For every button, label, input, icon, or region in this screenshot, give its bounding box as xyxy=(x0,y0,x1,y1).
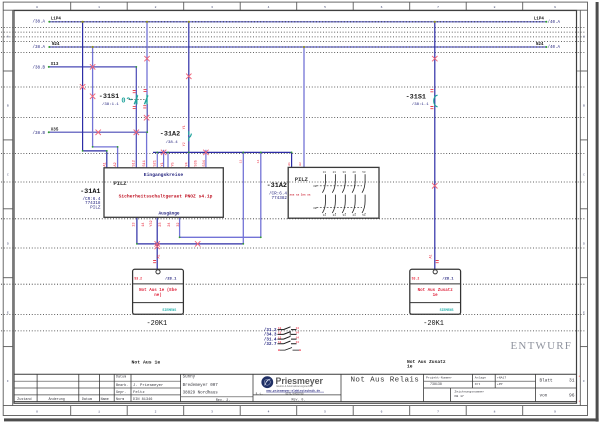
svg-text:Elektro & Automatisierungstech: Elektro & Automatisierungstechnik xyxy=(277,385,314,388)
svg-text:0: 0 xyxy=(36,410,38,413)
svg-text:E: E xyxy=(583,311,585,314)
svg-text:13: 13 xyxy=(323,171,327,174)
svg-text:N24: N24 xyxy=(536,43,544,47)
svg-text:/38:1.1: /38:1.1 xyxy=(412,102,429,107)
svg-text:N24: N24 xyxy=(52,43,60,47)
svg-text:+PP: +PP xyxy=(497,382,503,386)
svg-text:Y32: Y32 xyxy=(150,220,154,226)
svg-text:31: 31 xyxy=(569,378,575,384)
svg-text:Y1: Y1 xyxy=(161,162,165,166)
svg-text:A: A xyxy=(7,36,9,39)
svg-text:8: 8 xyxy=(494,410,496,413)
svg-text:14: 14 xyxy=(296,341,300,344)
svg-text:-20K1: -20K1 xyxy=(423,320,444,328)
svg-text:S3.2: S3.2 xyxy=(412,276,420,280)
svg-text:J. Priesmeyer: J. Priesmeyer xyxy=(133,383,163,388)
svg-text:SIEMENS: SIEMENS xyxy=(162,308,176,312)
svg-text:L1P4: L1P4 xyxy=(534,18,545,22)
svg-text:Rev. 2.: Rev. 2. xyxy=(216,399,231,403)
svg-text:A1: A1 xyxy=(103,162,107,166)
svg-text:5: 5 xyxy=(324,410,326,413)
svg-text:X13: X13 xyxy=(51,63,59,67)
svg-text:Ausgänge: Ausgänge xyxy=(158,211,179,216)
svg-text:23: 23 xyxy=(333,171,337,174)
svg-text:14: 14 xyxy=(296,327,300,330)
svg-text:/31.2: /31.2 xyxy=(264,328,277,333)
svg-text:32: 32 xyxy=(177,222,181,226)
svg-text:A1: A1 xyxy=(158,254,162,258)
svg-text:Not Aus Zusatz: Not Aus Zusatz xyxy=(407,359,446,365)
svg-text:1: 1 xyxy=(98,410,100,413)
svg-text:A: A xyxy=(583,36,585,39)
svg-text:ENTWURF: ENTWURF xyxy=(511,340,573,352)
svg-text:33: 33 xyxy=(343,171,347,174)
svg-text:/32.7: /32.7 xyxy=(264,342,277,347)
svg-text:F: F xyxy=(7,380,9,383)
svg-text:13: 13 xyxy=(132,222,136,226)
svg-text:8: 8 xyxy=(494,6,496,9)
svg-text:Eingangskreise: Eingangskreise xyxy=(144,172,184,178)
svg-text:43: 43 xyxy=(352,171,356,174)
svg-text:Y2: Y2 xyxy=(182,142,186,146)
svg-text:+NA17: +NA17 xyxy=(497,375,506,379)
svg-text:9: 9 xyxy=(554,6,556,9)
svg-text:S21: S21 xyxy=(153,160,157,166)
svg-text:38829 Nordhaus: 38829 Nordhaus xyxy=(183,391,219,396)
svg-text:A2: A2 xyxy=(298,162,302,166)
svg-text:/28.1: /28.1 xyxy=(442,276,454,281)
svg-text:/40.A: /40.A xyxy=(548,45,561,50)
svg-text:Feltz: Feltz xyxy=(133,390,145,395)
svg-text:B: B xyxy=(583,105,585,108)
svg-text:-31S1: -31S1 xyxy=(99,93,119,101)
svg-text:Y4: Y4 xyxy=(185,162,189,166)
svg-text:/31.4: /31.4 xyxy=(264,337,277,342)
svg-text:SIEMENS: SIEMENS xyxy=(440,308,454,312)
svg-text:Not Aus 1e: Not Aus 1e xyxy=(132,360,161,366)
svg-text:/38.B: /38.B xyxy=(33,66,46,71)
svg-text:/38.A: /38.A xyxy=(33,20,46,25)
svg-text:/38.A: /38.A xyxy=(33,45,46,50)
svg-text:34: 34 xyxy=(343,214,347,217)
svg-text:9: 9 xyxy=(554,410,556,413)
svg-text:14: 14 xyxy=(296,336,300,339)
svg-text:774382: 774382 xyxy=(272,196,288,201)
svg-text:14: 14 xyxy=(323,214,327,217)
svg-text:Not Aus Zusatz: Not Aus Zusatz xyxy=(418,289,454,293)
svg-text:D: D xyxy=(583,242,585,245)
svg-text:738138: 738138 xyxy=(430,382,442,386)
svg-text:Norm: Norm xyxy=(116,397,124,402)
svg-text:5: 5 xyxy=(324,6,326,9)
svg-text:-31A2: -31A2 xyxy=(160,130,180,138)
svg-text:14: 14 xyxy=(256,160,260,164)
svg-text:1: 1 xyxy=(98,6,100,9)
svg-text:/38:1.1: /38:1.1 xyxy=(102,102,119,107)
svg-text:X35: X35 xyxy=(51,129,59,133)
svg-text:Y5: Y5 xyxy=(172,162,176,166)
svg-text:S3.2: S3.2 xyxy=(134,276,142,280)
svg-text:PILZ: PILZ xyxy=(295,176,309,183)
svg-text:13: 13 xyxy=(278,336,282,339)
svg-text:von: von xyxy=(540,394,548,399)
svg-text:C: C xyxy=(583,173,585,176)
svg-text:ne): ne) xyxy=(154,293,162,298)
svg-text:3: 3 xyxy=(211,410,213,413)
svg-text:2: 2 xyxy=(155,410,157,413)
svg-text:4: 4 xyxy=(268,410,270,413)
svg-text:44: 44 xyxy=(352,214,356,217)
svg-text:KB: KB xyxy=(314,207,318,210)
svg-text:Bearb.: Bearb. xyxy=(116,383,128,388)
svg-text:xxx xx 3xx xx: xxx xx 3xx xx xyxy=(290,194,311,197)
svg-text:DIN 81346: DIN 81346 xyxy=(133,398,152,402)
svg-text:Zustand: Zustand xyxy=(17,397,31,402)
svg-text:F: F xyxy=(583,380,585,383)
svg-text:S11: S11 xyxy=(143,160,147,166)
svg-text:Not Aus 1e (Ebe: Not Aus 1e (Ebe xyxy=(139,288,177,293)
svg-text:4: 4 xyxy=(268,6,270,9)
svg-text:Name: Name xyxy=(101,398,109,402)
svg-text:/40.A: /40.A xyxy=(548,20,561,25)
svg-text:B: B xyxy=(7,105,9,108)
svg-text:A1: A1 xyxy=(430,254,434,258)
svg-text:Änderung: Änderung xyxy=(49,397,65,402)
svg-text:Ort: Ort xyxy=(475,382,481,386)
svg-text:E: E xyxy=(7,311,9,314)
svg-text:Gepr.: Gepr. xyxy=(116,390,126,395)
svg-text:7: 7 xyxy=(437,6,439,9)
svg-text:6: 6 xyxy=(381,410,383,413)
svg-text:KB 17: KB 17 xyxy=(455,394,464,398)
svg-text:/38.4: /38.4 xyxy=(166,140,179,145)
svg-text:6: 6 xyxy=(381,6,383,9)
svg-text:L1P4: L1P4 xyxy=(51,18,62,22)
svg-text:Rev. 0.: Rev. 0. xyxy=(292,397,306,401)
svg-text:13: 13 xyxy=(239,160,243,164)
svg-text:Sicherheitsschaltgeraet PNOZ s: Sicherheitsschaltgeraet PNOZ s4.1p xyxy=(119,193,213,199)
svg-text:Anlage: Anlage xyxy=(475,375,486,379)
svg-text:13: 13 xyxy=(278,341,282,344)
svg-text:A2: A2 xyxy=(114,162,118,166)
svg-text:D: D xyxy=(7,242,9,245)
svg-text:1e: 1e xyxy=(407,363,413,369)
svg-text:24: 24 xyxy=(333,214,337,217)
svg-text:Datum: Datum xyxy=(82,398,92,402)
svg-text:Sunny: Sunny xyxy=(183,375,196,379)
svg-text:Not Aus Relais: Not Aus Relais xyxy=(351,376,420,384)
svg-text:23: 23 xyxy=(159,222,163,226)
svg-text:7: 7 xyxy=(437,410,439,413)
svg-text:14: 14 xyxy=(142,222,146,226)
svg-text:3: 3 xyxy=(211,6,213,9)
svg-text:Zeichnungsnummer: Zeichnungsnummer xyxy=(455,390,485,394)
svg-text:13: 13 xyxy=(278,332,282,335)
svg-text:13: 13 xyxy=(278,327,282,330)
svg-text:/34.3: /34.3 xyxy=(264,333,277,338)
svg-text:PILZ: PILZ xyxy=(113,180,127,187)
svg-text:0: 0 xyxy=(121,98,125,106)
svg-text:/38.B: /38.B xyxy=(33,131,46,136)
svg-text:Bredemeyer 007: Bredemeyer 007 xyxy=(183,383,219,388)
svg-text:-31S1: -31S1 xyxy=(406,94,426,102)
svg-text:S12: S12 xyxy=(133,160,137,166)
svg-text:KB: KB xyxy=(314,185,318,188)
svg-text:/28.1: /28.1 xyxy=(165,276,177,281)
svg-text:0: 0 xyxy=(36,6,38,9)
svg-text:14: 14 xyxy=(296,332,300,335)
svg-text:2: 2 xyxy=(155,6,157,9)
svg-text:A1: A1 xyxy=(287,162,291,166)
svg-text:PILZ: PILZ xyxy=(90,205,101,210)
svg-text:-31A1: -31A1 xyxy=(80,188,100,196)
svg-text:S34: S34 xyxy=(203,160,207,166)
svg-text:1e: 1e xyxy=(433,294,439,298)
svg-text:Projekt-Nummer: Projekt-Nummer xyxy=(426,375,452,379)
svg-text:24: 24 xyxy=(168,222,172,226)
svg-text:-20K1: -20K1 xyxy=(147,320,168,328)
svg-text:C: C xyxy=(7,173,9,176)
svg-text:S35: S35 xyxy=(195,160,199,166)
svg-text:-31A2: -31A2 xyxy=(267,182,287,190)
svg-text:96: 96 xyxy=(569,393,575,399)
svg-text:Blatt: Blatt xyxy=(540,379,554,384)
svg-text:53: 53 xyxy=(362,171,366,174)
svg-text:Datum: Datum xyxy=(116,376,126,380)
svg-text:54: 54 xyxy=(362,214,366,217)
svg-text:Y1: Y1 xyxy=(182,125,186,129)
